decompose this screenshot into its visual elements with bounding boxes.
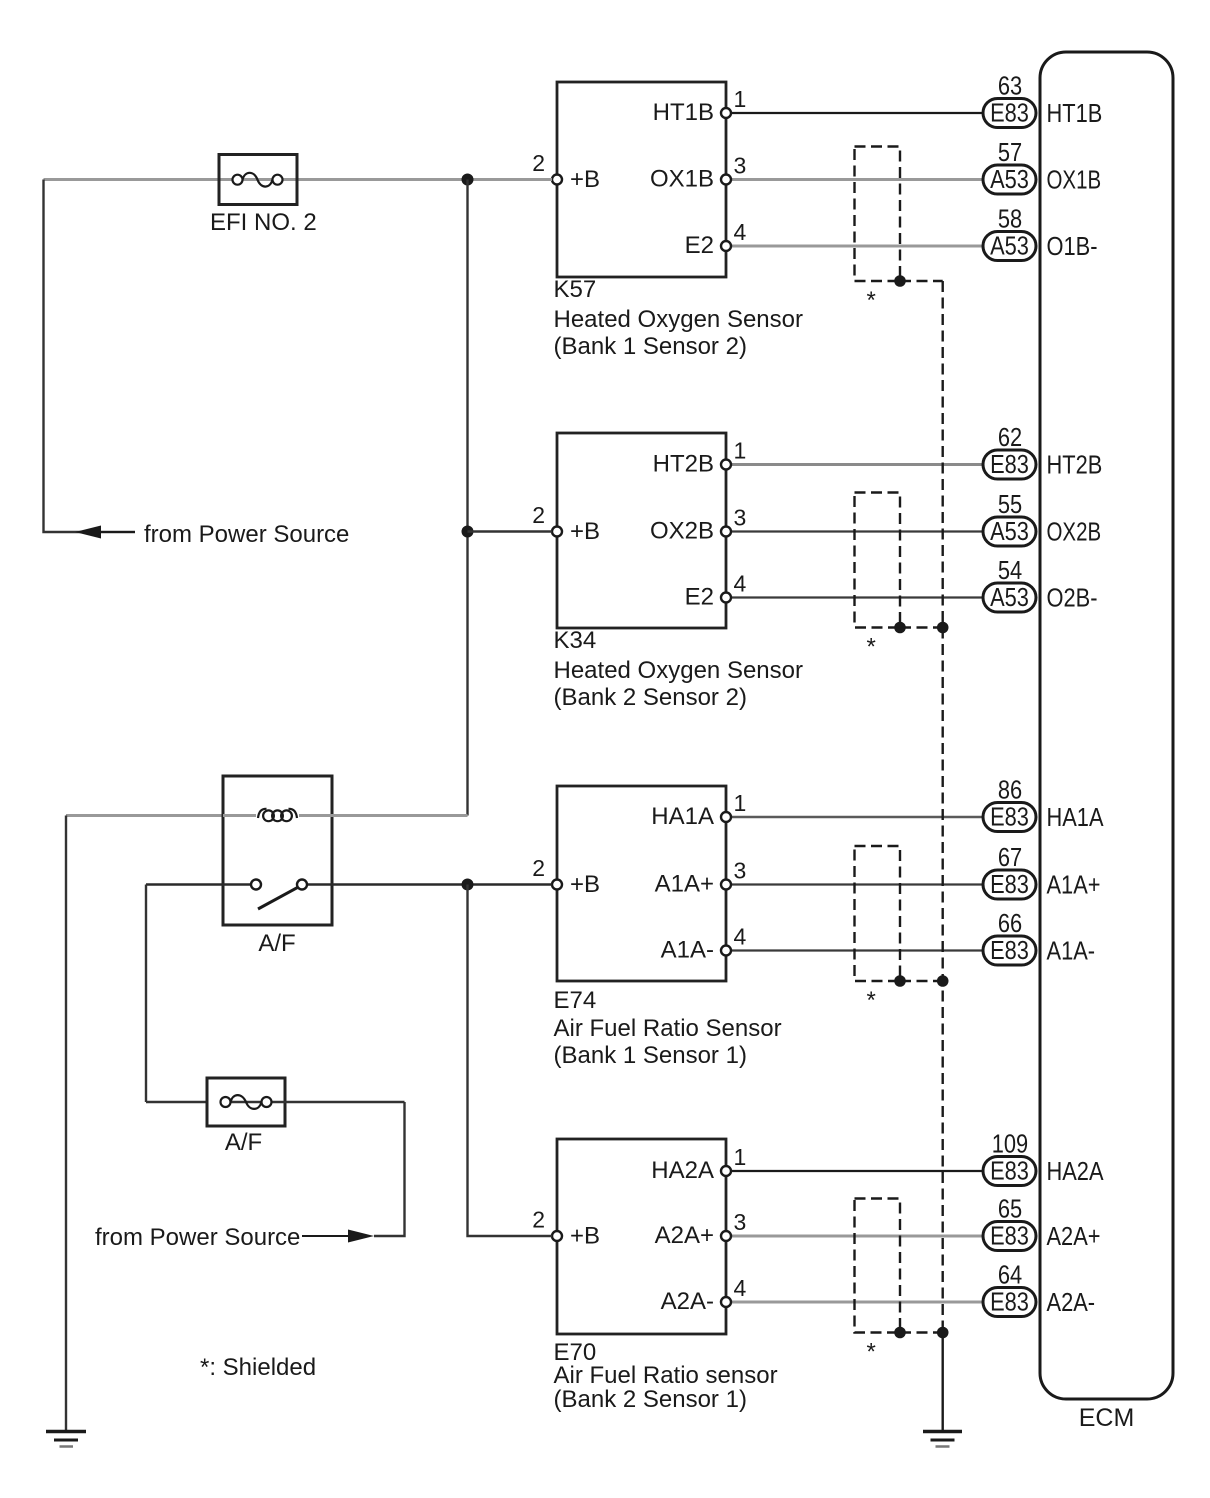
fuse EFI NO. 2 (219, 155, 297, 205)
svg-text:2: 2 (532, 150, 545, 176)
E70 pin 4 A2A- terminal (721, 1297, 731, 1307)
wire OX2B sensor to ECM pin 55 (731, 530, 983, 532)
svg-text:62: 62 (998, 422, 1022, 452)
svg-text:E2: E2 (685, 232, 714, 259)
K57 +B terminal pin 2 (552, 175, 562, 185)
shield drain dashed link 4 (900, 1331, 943, 1333)
K57 pin 3 OX1B terminal (721, 175, 731, 185)
svg-text:+B: +B (570, 871, 600, 898)
svg-text:A2A-: A2A- (661, 1288, 714, 1315)
wire A2A- sensor to ECM pin 64 (731, 1301, 983, 1304)
shield junction dot 1 (894, 275, 906, 287)
svg-text:E83: E83 (990, 802, 1029, 832)
svg-text:from Power Source: from Power Source (144, 521, 349, 548)
svg-text:HT2B: HT2B (1047, 450, 1103, 480)
wire O1B- sensor to ECM pin 58 (731, 245, 983, 248)
svg-text:E83: E83 (990, 1287, 1029, 1317)
svg-text:1: 1 (734, 86, 747, 112)
wire A2A+ sensor to ECM pin 65 (731, 1235, 983, 1238)
ground symbol (right, shield drain) (923, 1430, 962, 1434)
svg-text:A2A-: A2A- (1047, 1287, 1096, 1317)
wire shield bus to ground (942, 1333, 944, 1432)
svg-text:HA1A: HA1A (1047, 802, 1105, 832)
svg-text:HT2B: HT2B (653, 451, 714, 478)
shield (dashed) around sensor 3 signal wires (855, 846, 901, 981)
shield drain bus (dashed vertical) (942, 281, 944, 1333)
svg-text:2: 2 (532, 502, 545, 528)
svg-text:109: 109 (992, 1129, 1028, 1159)
arrowhead to power source (left) (75, 526, 101, 539)
shield junction dot 3 (894, 975, 906, 987)
svg-text:E83: E83 (990, 935, 1029, 965)
shield drain dashed link 3 (900, 980, 943, 982)
svg-text:(Bank 1 Sensor 2): (Bank 1 Sensor 2) (554, 333, 747, 360)
svg-text:Heated Oxygen Sensor: Heated Oxygen Sensor (554, 306, 803, 333)
svg-text:(Bank 2 Sensor 1): (Bank 2 Sensor 1) (554, 1386, 747, 1413)
svg-text:A2A+: A2A+ (655, 1222, 714, 1249)
svg-text:*: * (867, 1339, 876, 1366)
svg-text:64: 64 (998, 1260, 1022, 1290)
svg-text:E83: E83 (990, 869, 1029, 899)
svg-text:EFI NO. 2: EFI NO. 2 (210, 209, 317, 236)
wire switch row left (146, 883, 251, 885)
wire A1A- sensor to ECM pin 66 (731, 949, 983, 951)
svg-text:from Power Source: from Power Source (95, 1224, 300, 1251)
E74 +B terminal pin 2 (552, 880, 562, 890)
wire OX1B sensor to ECM pin 57 (731, 178, 983, 181)
svg-text:HA2A: HA2A (1047, 1156, 1105, 1186)
svg-text:86: 86 (998, 775, 1022, 805)
wire HA2A sensor to ECM pin 109 (731, 1170, 983, 1172)
wire switch row right to +B of E74 (307, 883, 552, 885)
wire A1A+ sensor to ECM pin 67 (731, 883, 983, 885)
svg-text:ECM: ECM (1079, 1404, 1135, 1432)
svg-text:A1A+: A1A+ (655, 871, 714, 898)
shield junction dot 2 (894, 622, 906, 634)
svg-text:63: 63 (998, 71, 1022, 101)
svg-text:55: 55 (998, 489, 1022, 519)
svg-text:E83: E83 (990, 1156, 1029, 1186)
junction dot K34 +B tap (462, 526, 474, 538)
ECM connector E83 pin 64 oval (983, 1288, 1036, 1317)
relay A/F box (223, 776, 332, 925)
svg-text:O2B-: O2B- (1047, 583, 1098, 613)
K57 pin 4 E2 terminal (721, 241, 731, 251)
ECM connector E83 pin 66 oval (983, 936, 1036, 965)
svg-text:2: 2 (532, 855, 545, 881)
svg-text:OX2B: OX2B (650, 518, 714, 545)
ECM connector A53 pin 55 oval (983, 517, 1036, 546)
svg-text:E83: E83 (990, 98, 1029, 128)
shield junction dot 4 (894, 1327, 906, 1339)
svg-text:(Bank 1 Sensor 1): (Bank 1 Sensor 1) (554, 1042, 747, 1069)
svg-text:*: * (867, 287, 876, 314)
svg-text:1: 1 (734, 790, 747, 816)
svg-text:A/F: A/F (225, 1129, 262, 1156)
svg-text:A53: A53 (990, 164, 1029, 194)
junction dot switch feed (462, 879, 474, 891)
svg-text:E74: E74 (554, 987, 597, 1014)
relay coil (256, 804, 299, 827)
shield (dashed) around sensor 1 signal wires (855, 147, 901, 282)
svg-text:A1A-: A1A- (1047, 936, 1096, 966)
wire switch feed down to E70 +B (468, 885, 553, 1237)
svg-text:1: 1 (734, 438, 747, 464)
svg-text:HT1B: HT1B (1047, 98, 1103, 128)
svg-text:57: 57 (998, 137, 1022, 167)
svg-text:+B: +B (570, 1223, 600, 1250)
svg-text:*: Shielded: *: Shielded (200, 1354, 316, 1381)
svg-text:K57: K57 (554, 276, 597, 303)
ECM connector A53 pin 58 oval (983, 232, 1036, 261)
svg-text:A53: A53 (990, 582, 1029, 612)
fuse A/F (207, 1078, 285, 1126)
E74 pin 1 HA1A terminal (721, 812, 731, 822)
ECM connector A53 pin 57 oval (983, 165, 1036, 194)
E74 pin 4 A1A- terminal (721, 946, 731, 956)
E70 pin 1 HA2A terminal (721, 1166, 731, 1176)
svg-text:A1A+: A1A+ (1047, 870, 1101, 900)
relay switch contacts (251, 880, 261, 890)
ECM connector E83 pin 62 oval (983, 450, 1036, 479)
junction node EFI feed splits down (462, 174, 474, 186)
K57 pin 1 HT1B terminal (721, 108, 731, 118)
shield (dashed) around sensor 2 signal wires (855, 493, 901, 628)
wire HT1B sensor to ECM pin 63 (731, 112, 983, 114)
E70 pin 3 A2A+ terminal (721, 1231, 731, 1241)
wire relay coil left to ground drop (66, 814, 468, 817)
svg-text:E83: E83 (990, 1221, 1029, 1251)
svg-text:E83: E83 (990, 449, 1029, 479)
K34 pin 1 HT2B terminal (721, 460, 731, 470)
svg-text:A53: A53 (990, 516, 1029, 546)
K34 +B terminal pin 2 (552, 527, 562, 537)
svg-text:2: 2 (532, 1207, 545, 1233)
svg-text:4: 4 (734, 571, 747, 597)
wire EFI feed down to relay coil (466, 180, 468, 816)
svg-text:Heated Oxygen Sensor: Heated Oxygen Sensor (554, 657, 803, 684)
wire O2B- sensor to ECM pin 54 (731, 596, 983, 598)
svg-text:Air Fuel Ratio sensor: Air Fuel Ratio sensor (554, 1362, 778, 1389)
svg-text:3: 3 (734, 858, 747, 884)
wire battery feed to EFI NO.2 fuse and +B of K57 (44, 178, 553, 181)
sensor connector box K34 (557, 433, 726, 628)
ECM connector E83 pin 109 oval (983, 1157, 1036, 1186)
E70 +B terminal pin 2 (552, 1231, 562, 1241)
svg-text:A53: A53 (990, 231, 1029, 261)
ECM connector E83 pin 67 oval (983, 870, 1036, 899)
wire left drop to from-Power-Source arrow (44, 180, 136, 533)
svg-text:+B: +B (570, 518, 600, 545)
wire HT2B sensor to ECM pin 62 (731, 463, 983, 466)
sensor connector box K57 (557, 82, 726, 277)
K34 pin 4 E2 terminal (721, 593, 731, 603)
svg-text:65: 65 (998, 1194, 1022, 1224)
svg-text:OX1B: OX1B (1047, 165, 1102, 195)
svg-text:OX1B: OX1B (650, 166, 714, 193)
arrowhead from power source (lower) (348, 1230, 374, 1243)
svg-text:(Bank 2 Sensor 2): (Bank 2 Sensor 2) (554, 684, 747, 711)
svg-text:3: 3 (734, 505, 747, 531)
svg-text:A2A+: A2A+ (1047, 1221, 1101, 1251)
ECM connector A53 pin 54 oval (983, 583, 1036, 612)
sensor connector box E74 (557, 786, 726, 981)
wire HA1A sensor to ECM pin 86 (731, 816, 983, 819)
svg-text:4: 4 (734, 1275, 747, 1301)
wire junction to K34 +B (468, 530, 553, 532)
wire relay switch to A/F fuse (145, 885, 147, 1103)
svg-text:*: * (867, 987, 876, 1014)
svg-text:Air Fuel Ratio Sensor: Air Fuel Ratio Sensor (554, 1015, 782, 1042)
K34 pin 3 OX2B terminal (721, 527, 731, 537)
svg-text:HA1A: HA1A (651, 803, 714, 830)
svg-text:HA2A: HA2A (651, 1157, 714, 1184)
svg-text:A/F: A/F (258, 930, 295, 957)
svg-text:3: 3 (734, 153, 747, 179)
svg-text:A1A-: A1A- (661, 937, 714, 964)
relay switch blade (258, 888, 298, 910)
svg-text:*: * (867, 634, 876, 661)
E74 pin 3 A1A+ terminal (721, 880, 731, 890)
svg-text:OX2B: OX2B (1047, 517, 1102, 547)
svg-text:54: 54 (998, 555, 1022, 585)
ECM connector E83 pin 65 oval (983, 1222, 1036, 1251)
ECM connector E83 pin 63 oval (983, 99, 1036, 128)
ECM connector E83 pin 86 oval (983, 803, 1036, 832)
svg-text:66: 66 (998, 908, 1022, 938)
wire ground drop from coil (65, 816, 67, 1432)
ground symbol (left, relay coil) (46, 1430, 86, 1434)
shield (dashed) around sensor 4 signal wires (855, 1199, 901, 1333)
svg-text:E2: E2 (685, 584, 714, 611)
svg-text:HT1B: HT1B (653, 99, 714, 126)
wire A/F fuse from power source (374, 1102, 405, 1236)
svg-text:3: 3 (734, 1209, 747, 1235)
svg-text:67: 67 (998, 842, 1022, 872)
sensor connector box E70 (557, 1139, 726, 1334)
shield drain dashed link 1 (900, 280, 943, 282)
svg-text:K34: K34 (554, 627, 597, 654)
svg-text:+B: +B (570, 166, 600, 193)
svg-text:4: 4 (734, 219, 747, 245)
svg-text:4: 4 (734, 924, 747, 950)
svg-text:1: 1 (734, 1144, 747, 1170)
ECM module body (1040, 52, 1173, 1399)
svg-text:O1B-: O1B- (1047, 231, 1098, 261)
svg-text:58: 58 (998, 204, 1022, 234)
shield drain dashed link 2 (900, 626, 943, 628)
